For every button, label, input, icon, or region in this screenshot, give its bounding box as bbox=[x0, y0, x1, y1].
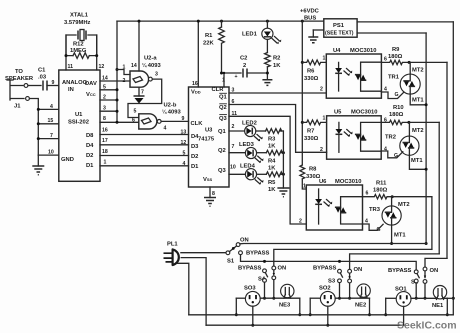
svg-text:16: 16 bbox=[102, 128, 108, 134]
label +5VDC BUS bbox=[300, 9, 320, 22]
ground under C2/R2 bbox=[262, 80, 272, 86]
svg-text:G: G bbox=[395, 92, 399, 98]
wire jack sleeve to ground rail bbox=[30, 99, 39, 156]
resistor R12 1MEG bbox=[65, 35, 99, 58]
power supply PS1 bbox=[324, 19, 357, 37]
svg-text:1MEG: 1MEG bbox=[70, 48, 87, 54]
LED chain common wire and ground bbox=[277, 131, 289, 197]
socket SO2 bbox=[310, 286, 369, 307]
svg-text:6: 6 bbox=[384, 57, 387, 63]
svg-text:9: 9 bbox=[52, 80, 55, 86]
svg-text:12: 12 bbox=[181, 140, 187, 146]
svg-text:13: 13 bbox=[181, 130, 187, 136]
+5V tie rail for U2a pin1 / U1 pins bbox=[116, 21, 119, 124]
resistor R5 1K bbox=[266, 172, 285, 193]
svg-text:C2: C2 bbox=[240, 56, 247, 62]
svg-text:7: 7 bbox=[232, 144, 235, 150]
svg-text:R4: R4 bbox=[268, 159, 276, 165]
U3 Q2bar wire pin6 to U5 pin2 bbox=[229, 99, 327, 153]
triac TR1 bbox=[381, 62, 426, 104]
SO1 bottom stub to line2 bbox=[403, 306, 405, 325]
svg-text:LED1: LED1 bbox=[242, 32, 258, 38]
svg-text:BYPASS: BYPASS bbox=[246, 251, 270, 257]
svg-text:D2: D2 bbox=[191, 154, 198, 160]
ground PS1 bbox=[308, 30, 324, 43]
svg-text:3.579MHz: 3.579MHz bbox=[64, 20, 91, 26]
svg-text:BYPASS: BYPASS bbox=[388, 268, 412, 274]
svg-text:ON: ON bbox=[354, 267, 363, 273]
svg-text:1K: 1K bbox=[268, 187, 276, 193]
wire PS1 bottom to MT1 rail bbox=[357, 32, 426, 34]
ground left rail bbox=[32, 155, 44, 175]
svg-text:R12: R12 bbox=[73, 42, 84, 48]
svg-text:22K: 22K bbox=[203, 41, 214, 47]
U3 Q3bar wire pin11 to U6 pin2 bbox=[229, 111, 306, 225]
resistor R9 180 ohm bbox=[381, 47, 447, 65]
U3 pin1 CLR bbox=[222, 73, 225, 87]
svg-text:10: 10 bbox=[230, 165, 236, 171]
U3 ground pin 8 bbox=[204, 187, 216, 206]
svg-text:TR1: TR1 bbox=[388, 75, 400, 81]
svg-text:C1: C1 bbox=[38, 68, 46, 74]
svg-text:¼ 4093: ¼ 4093 bbox=[142, 62, 161, 69]
svg-text:D4: D4 bbox=[191, 134, 199, 140]
resistor R2 1K bbox=[265, 39, 282, 79]
svg-text:12: 12 bbox=[99, 64, 105, 70]
LED1 bbox=[242, 21, 281, 44]
svg-text:S3: S3 bbox=[328, 279, 336, 285]
LED4 with Q3 pin10 bbox=[229, 164, 266, 185]
svg-text:R5: R5 bbox=[268, 180, 276, 186]
svg-text:U5: U5 bbox=[334, 110, 342, 116]
svg-text:(SEE TEXT): (SEE TEXT) bbox=[325, 31, 354, 37]
switch S2 bbox=[388, 267, 438, 300]
resistor R6 330 ohm bbox=[302, 56, 326, 83]
SO2 left wire down to neutral bus bbox=[309, 298, 312, 316]
S1 ON line to MT1 rail bbox=[240, 243, 426, 245]
svg-text:Q2: Q2 bbox=[218, 148, 226, 154]
svg-text:MT2: MT2 bbox=[412, 68, 424, 74]
svg-text:2: 2 bbox=[320, 87, 323, 93]
U1 right pin 16 data wire D8 bbox=[100, 128, 189, 136]
svg-text:2: 2 bbox=[123, 78, 126, 84]
svg-text:4: 4 bbox=[183, 161, 186, 167]
+5V top bus wire bbox=[117, 20, 324, 23]
svg-text:NE3: NE3 bbox=[279, 303, 291, 309]
jack J1 bbox=[7, 80, 29, 110]
svg-text:U4: U4 bbox=[333, 48, 341, 54]
svg-text:R10: R10 bbox=[393, 105, 404, 111]
svg-text:16: 16 bbox=[192, 81, 198, 87]
svg-text:MT2: MT2 bbox=[398, 202, 410, 208]
wire U2-b out to U3 CLK bbox=[161, 120, 188, 122]
op gate U2-b 1/4 4093 bbox=[132, 103, 185, 132]
svg-text:R8: R8 bbox=[309, 167, 317, 173]
svg-text:U6: U6 bbox=[319, 179, 327, 185]
svg-text:+6VDC: +6VDC bbox=[300, 9, 320, 15]
bottom line2 bbox=[206, 324, 404, 326]
resistor R7 330 ohm bbox=[302, 116, 326, 143]
svg-text:6: 6 bbox=[132, 117, 135, 123]
svg-text:180Ω: 180Ω bbox=[389, 112, 404, 118]
label TO SPEAKER bbox=[5, 69, 34, 82]
wire PS1 top to right rail bbox=[357, 21, 453, 23]
svg-text:MT1: MT1 bbox=[412, 98, 424, 104]
SO3 bottom stub to line2 bbox=[251, 306, 254, 327]
+5V vertical rail to R6/R7/R8 bbox=[301, 21, 304, 165]
SO2 bottom stub to line2 bbox=[326, 306, 329, 327]
svg-text:U3: U3 bbox=[205, 128, 213, 134]
svg-text:D4: D4 bbox=[86, 143, 94, 149]
optocoupler U5 MOC3010 bbox=[327, 110, 387, 160]
svg-text:330Ω: 330Ω bbox=[304, 136, 319, 142]
svg-text:R6: R6 bbox=[307, 69, 315, 75]
svg-text:PL1: PL1 bbox=[167, 242, 178, 248]
svg-text:18: 18 bbox=[102, 149, 108, 155]
op gate U2-a 1/4 4093 bbox=[123, 56, 162, 88]
U1 right pin 18 data wire D2 bbox=[100, 149, 189, 157]
svg-text:6: 6 bbox=[366, 191, 369, 197]
U1 right pin 14 DAV wire to U2-a pin2 bbox=[100, 76, 130, 82]
resistor R10 180 ohm bbox=[381, 105, 439, 125]
U1 right pin 1 data wire D1 bbox=[100, 160, 189, 167]
svg-text:DAV: DAV bbox=[85, 81, 97, 87]
U1 right pin 5 Vcc bbox=[100, 85, 117, 91]
rail TR2 MT2 down bbox=[438, 122, 440, 254]
socket SO3 bbox=[236, 286, 299, 307]
svg-text:.03: .03 bbox=[38, 75, 47, 81]
svg-text:2: 2 bbox=[320, 147, 323, 153]
resistor R3 1K bbox=[266, 129, 284, 150]
svg-text:NE2: NE2 bbox=[355, 303, 366, 309]
svg-text:17: 17 bbox=[102, 138, 108, 144]
svg-text:U2-a: U2-a bbox=[144, 56, 157, 62]
svg-text:180Ω: 180Ω bbox=[373, 188, 388, 194]
socket SO1 bbox=[386, 287, 448, 307]
capacitor C2 bbox=[235, 56, 268, 81]
svg-text:ON: ON bbox=[278, 266, 287, 272]
neon NE2 bbox=[355, 284, 370, 309]
U1 right pin 2 bbox=[100, 95, 117, 101]
switch S3 bbox=[313, 266, 362, 300]
svg-text:1: 1 bbox=[323, 56, 326, 62]
svg-text:SPEAKER: SPEAKER bbox=[5, 76, 34, 82]
svg-text:MT1: MT1 bbox=[394, 233, 406, 239]
svg-text:1: 1 bbox=[104, 160, 107, 166]
neon NE1 bbox=[432, 286, 447, 309]
rail PS1 neutral down to bottom bus bbox=[452, 22, 455, 315]
bottom neutral bus bbox=[189, 314, 454, 316]
SO1 left wire down to neutral bus bbox=[384, 298, 387, 316]
svg-text:1K: 1K bbox=[268, 144, 276, 150]
wire plug to bottom line2 bbox=[181, 258, 206, 326]
capacitor C1 bbox=[28, 68, 59, 91]
svg-text:IN: IN bbox=[68, 87, 74, 93]
NE3 right corner to neutral bus bbox=[298, 298, 301, 316]
svg-text:TR2: TR2 bbox=[385, 135, 396, 141]
svg-text:2: 2 bbox=[232, 124, 235, 130]
svg-text:14: 14 bbox=[131, 63, 137, 69]
svg-text:R11: R11 bbox=[376, 181, 387, 187]
wire U2-a out to U2-b pin5 bbox=[128, 79, 162, 117]
svg-text:ON: ON bbox=[240, 238, 249, 244]
MT1 rail from PS1 bbox=[425, 33, 428, 245]
U1 SSI-202 bbox=[59, 70, 100, 181]
svg-text:XTAL1: XTAL1 bbox=[70, 13, 89, 19]
U1 right pin 17 data wire D4 bbox=[100, 138, 189, 146]
staircase wire TR1 to S2 ON bbox=[425, 258, 447, 267]
resistor R8 330 ohm bbox=[300, 165, 321, 190]
wire U2-a pin14 to bus bbox=[138, 21, 140, 71]
triac TR3 bbox=[363, 197, 410, 245]
svg-text:R1: R1 bbox=[205, 33, 213, 39]
neon NE3 bbox=[279, 284, 294, 308]
svg-text:5: 5 bbox=[134, 109, 137, 115]
NE2 right corner to neutral bus bbox=[368, 298, 371, 316]
svg-text:CLK: CLK bbox=[191, 121, 204, 127]
svg-text:S1: S1 bbox=[227, 259, 235, 265]
junction dots left rail bbox=[37, 108, 40, 140]
svg-text:SO3: SO3 bbox=[244, 286, 256, 292]
U1 left pin 4 bbox=[38, 104, 59, 110]
svg-text:D1: D1 bbox=[86, 163, 94, 169]
bypass bus from S1 bbox=[241, 255, 417, 270]
svg-text:D3: D3 bbox=[191, 144, 199, 150]
svg-text:Q3: Q3 bbox=[218, 168, 227, 174]
svg-text:TO: TO bbox=[15, 69, 23, 75]
svg-text:SO2: SO2 bbox=[319, 286, 331, 292]
svg-text:R2: R2 bbox=[273, 56, 280, 62]
svg-text:1: 1 bbox=[303, 184, 306, 190]
svg-text:+: + bbox=[235, 74, 238, 80]
svg-text:5: 5 bbox=[183, 151, 186, 157]
node R1/C2/CLR bbox=[220, 72, 241, 75]
svg-text:MOC3010: MOC3010 bbox=[351, 110, 377, 116]
svg-text:SeekIC.com: SeekIC.com bbox=[397, 320, 457, 332]
svg-text:PS1: PS1 bbox=[333, 23, 345, 29]
svg-text:D1: D1 bbox=[191, 164, 199, 170]
svg-text:2: 2 bbox=[243, 63, 246, 69]
svg-text:8: 8 bbox=[103, 116, 106, 122]
resistor R1 22K bbox=[203, 21, 224, 73]
svg-text:R7: R7 bbox=[307, 129, 314, 135]
svg-text:D8: D8 bbox=[86, 133, 94, 139]
svg-text:R9: R9 bbox=[392, 47, 400, 53]
U3 pin16 VDD wire to bus bbox=[192, 21, 198, 87]
U3 Q1bar wire pin3 to U4 pin2 bbox=[229, 87, 326, 94]
wire U2-a pin1 bbox=[117, 70, 130, 75]
svg-text:Q2: Q2 bbox=[219, 105, 227, 111]
svg-text:MOC3010: MOC3010 bbox=[350, 48, 376, 54]
svg-text:BUS: BUS bbox=[304, 16, 316, 22]
svg-text:MT1: MT1 bbox=[411, 158, 423, 164]
svg-text:TR3: TR3 bbox=[369, 207, 381, 213]
staircase wire TR2 to S3 ON bbox=[350, 254, 440, 269]
svg-text:4: 4 bbox=[164, 126, 167, 132]
plug PL1 bbox=[164, 242, 179, 266]
svg-text:U2-b: U2-b bbox=[164, 103, 177, 109]
svg-text:15: 15 bbox=[48, 118, 54, 124]
U1 left pin 7 bbox=[38, 133, 59, 139]
svg-text:MOC3010: MOC3010 bbox=[335, 179, 361, 185]
ground U2-a pin7 bbox=[134, 87, 145, 103]
U1 left pin 10 bbox=[38, 150, 59, 156]
svg-text:D2: D2 bbox=[86, 153, 93, 159]
svg-text:Q1: Q1 bbox=[219, 95, 228, 101]
crystal XTAL1 bbox=[64, 13, 104, 71]
NE1 right wire to neutral bus bbox=[446, 298, 454, 316]
U1 right pin 3 bbox=[100, 106, 117, 112]
resistor R11 180 ohm bbox=[363, 181, 432, 199]
svg-text:R3: R3 bbox=[268, 137, 276, 143]
svg-text:Q1: Q1 bbox=[218, 129, 227, 135]
svg-text:ON: ON bbox=[430, 268, 439, 274]
svg-text:U1: U1 bbox=[75, 112, 83, 118]
svg-text:7: 7 bbox=[141, 90, 144, 96]
triac TR2 bbox=[381, 122, 426, 169]
svg-text:11: 11 bbox=[68, 64, 74, 70]
svg-text:GND: GND bbox=[61, 157, 74, 163]
rail TR3 MT2 down bbox=[431, 197, 433, 250]
LED2 with Q1 pin2 bbox=[229, 121, 266, 142]
wire plug to bottom neutral bus bbox=[178, 263, 189, 315]
svg-text:¼ 4093: ¼ 4093 bbox=[162, 109, 181, 116]
svg-text:1: 1 bbox=[323, 116, 326, 122]
svg-text:MT2: MT2 bbox=[412, 128, 424, 134]
svg-text:330Ω: 330Ω bbox=[304, 76, 319, 82]
SO3 left wire down to neutral bus bbox=[235, 298, 238, 316]
svg-text:2: 2 bbox=[299, 219, 302, 225]
svg-text:74175: 74175 bbox=[198, 137, 215, 143]
svg-text:1K: 1K bbox=[273, 63, 281, 69]
svg-text:8: 8 bbox=[212, 191, 215, 197]
svg-text:BYPASS: BYPASS bbox=[313, 266, 337, 272]
svg-text:BYPASS: BYPASS bbox=[238, 266, 262, 272]
U1 left pin 15 bbox=[38, 118, 59, 124]
svg-text:SSI-202: SSI-202 bbox=[68, 120, 89, 126]
svg-text:CLR: CLR bbox=[212, 87, 225, 93]
svg-text:NE1: NE1 bbox=[432, 303, 444, 309]
switch S4 bbox=[238, 266, 286, 300]
svg-text:ANALOG: ANALOG bbox=[62, 80, 88, 86]
rail TR1 MT2 down bbox=[446, 62, 448, 258]
optocoupler U4 MOC3010 bbox=[326, 48, 387, 98]
resistor R4 1K bbox=[266, 150, 285, 171]
LED3 with Q2 pin7 bbox=[229, 142, 266, 163]
svg-text:Q3: Q3 bbox=[219, 116, 228, 122]
svg-text:J1: J1 bbox=[14, 104, 21, 110]
svg-text:3: 3 bbox=[155, 72, 158, 78]
U1 right pin 8 wire to U2-b pin 6 bbox=[100, 116, 139, 123]
staircase wire TR3 to S4 ON bbox=[274, 249, 432, 266]
wire plug to S1 bbox=[181, 252, 226, 254]
optocoupler U6 MOC3010 bbox=[306, 179, 368, 230]
switch S1 bbox=[226, 238, 270, 265]
svg-text:180Ω: 180Ω bbox=[388, 54, 403, 60]
